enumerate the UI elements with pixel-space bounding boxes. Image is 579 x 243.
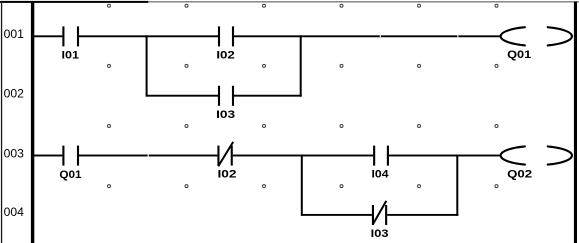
svg-text:Q02: Q02 bbox=[507, 169, 532, 181]
slash I02 normally closed bbox=[218, 142, 233, 166]
svg-text:Q01: Q01 bbox=[59, 169, 81, 181]
svg-text:I01: I01 bbox=[62, 50, 80, 62]
coil Q01 left arc bbox=[501, 27, 525, 45]
coil Q02 right arc bbox=[548, 146, 572, 164]
left window border bbox=[1, 1, 2, 243]
wire rung003 I02nc to I04 bbox=[233, 155, 373, 157]
top border black segment bbox=[0, 1, 148, 3]
branch vertical right rung001-rung002 bbox=[300, 35, 302, 96]
svg-text:I04: I04 bbox=[372, 169, 390, 181]
wire rung001 I02 to coil Q01 bbox=[234, 35, 501, 37]
branch vertical left rung003-rung004 bbox=[301, 155, 303, 216]
wire rung003 rail to Q01 contact bbox=[34, 155, 62, 157]
svg-text:001: 001 bbox=[4, 27, 25, 41]
left power rail bbox=[31, 2, 34, 243]
wire rung001 I01 to I02 bbox=[79, 35, 218, 37]
slash I03 normally closed bbox=[373, 201, 386, 224]
right power rail bbox=[574, 2, 577, 243]
wire rung001 rail to I01 bbox=[34, 35, 62, 37]
wire rung003 Q01 to I02nc bbox=[79, 155, 217, 157]
top border gray bbox=[146, 1, 579, 2]
coil Q02 left arc bbox=[501, 146, 525, 164]
svg-text:Q01: Q01 bbox=[507, 49, 531, 61]
wire rung003 I04 to coil Q02 bbox=[387, 155, 501, 157]
svg-text:I03: I03 bbox=[371, 228, 389, 240]
svg-text:003: 003 bbox=[4, 146, 25, 160]
contact I03 normally closed bbox=[372, 205, 387, 225]
wire rung004 I03nc to right bbox=[387, 214, 458, 216]
wire gap artifact rung001 bbox=[380, 35, 381, 37]
svg-text:I02: I02 bbox=[218, 169, 237, 181]
branch vertical left rung001-rung002 bbox=[146, 35, 148, 96]
svg-text:004: 004 bbox=[4, 205, 25, 219]
branch vertical right rung003-rung004 bbox=[456, 155, 458, 216]
wire rung002 left to I03 bbox=[147, 95, 219, 97]
wire rung002 I03 to right bbox=[234, 95, 302, 97]
svg-text:002: 002 bbox=[4, 86, 25, 100]
contact I02 bbox=[218, 26, 234, 46]
contact Q01 bbox=[62, 146, 79, 166]
svg-text:I02: I02 bbox=[216, 50, 235, 62]
contact I04 bbox=[373, 146, 389, 166]
wire gap artifact rung003 bbox=[148, 155, 149, 157]
coil Q01 right arc bbox=[548, 27, 572, 45]
wire rung004 left to I03nc bbox=[302, 214, 372, 216]
contact I01 bbox=[62, 26, 79, 46]
contact I02 normally closed bbox=[217, 146, 232, 166]
svg-text:I03: I03 bbox=[216, 109, 235, 121]
contact I03 bbox=[218, 86, 234, 106]
wire gap artifact rung001 b bbox=[457, 35, 458, 37]
grid dots bbox=[108, 4, 499, 187]
